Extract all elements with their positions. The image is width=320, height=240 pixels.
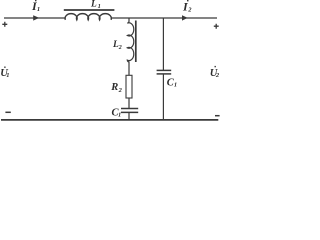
svg-text:2: 2: [118, 87, 123, 94]
svg-text:R: R: [110, 82, 118, 93]
svg-text:L: L: [90, 0, 97, 9]
svg-text:1: 1: [98, 3, 101, 10]
svg-text:2: 2: [118, 45, 122, 51]
svg-text:2: 2: [215, 72, 220, 79]
svg-text:1: 1: [37, 6, 40, 13]
svg-text:1: 1: [174, 82, 177, 89]
svg-text:2: 2: [187, 7, 192, 14]
svg-text:1: 1: [6, 72, 9, 79]
svg-text:1: 1: [118, 111, 121, 118]
